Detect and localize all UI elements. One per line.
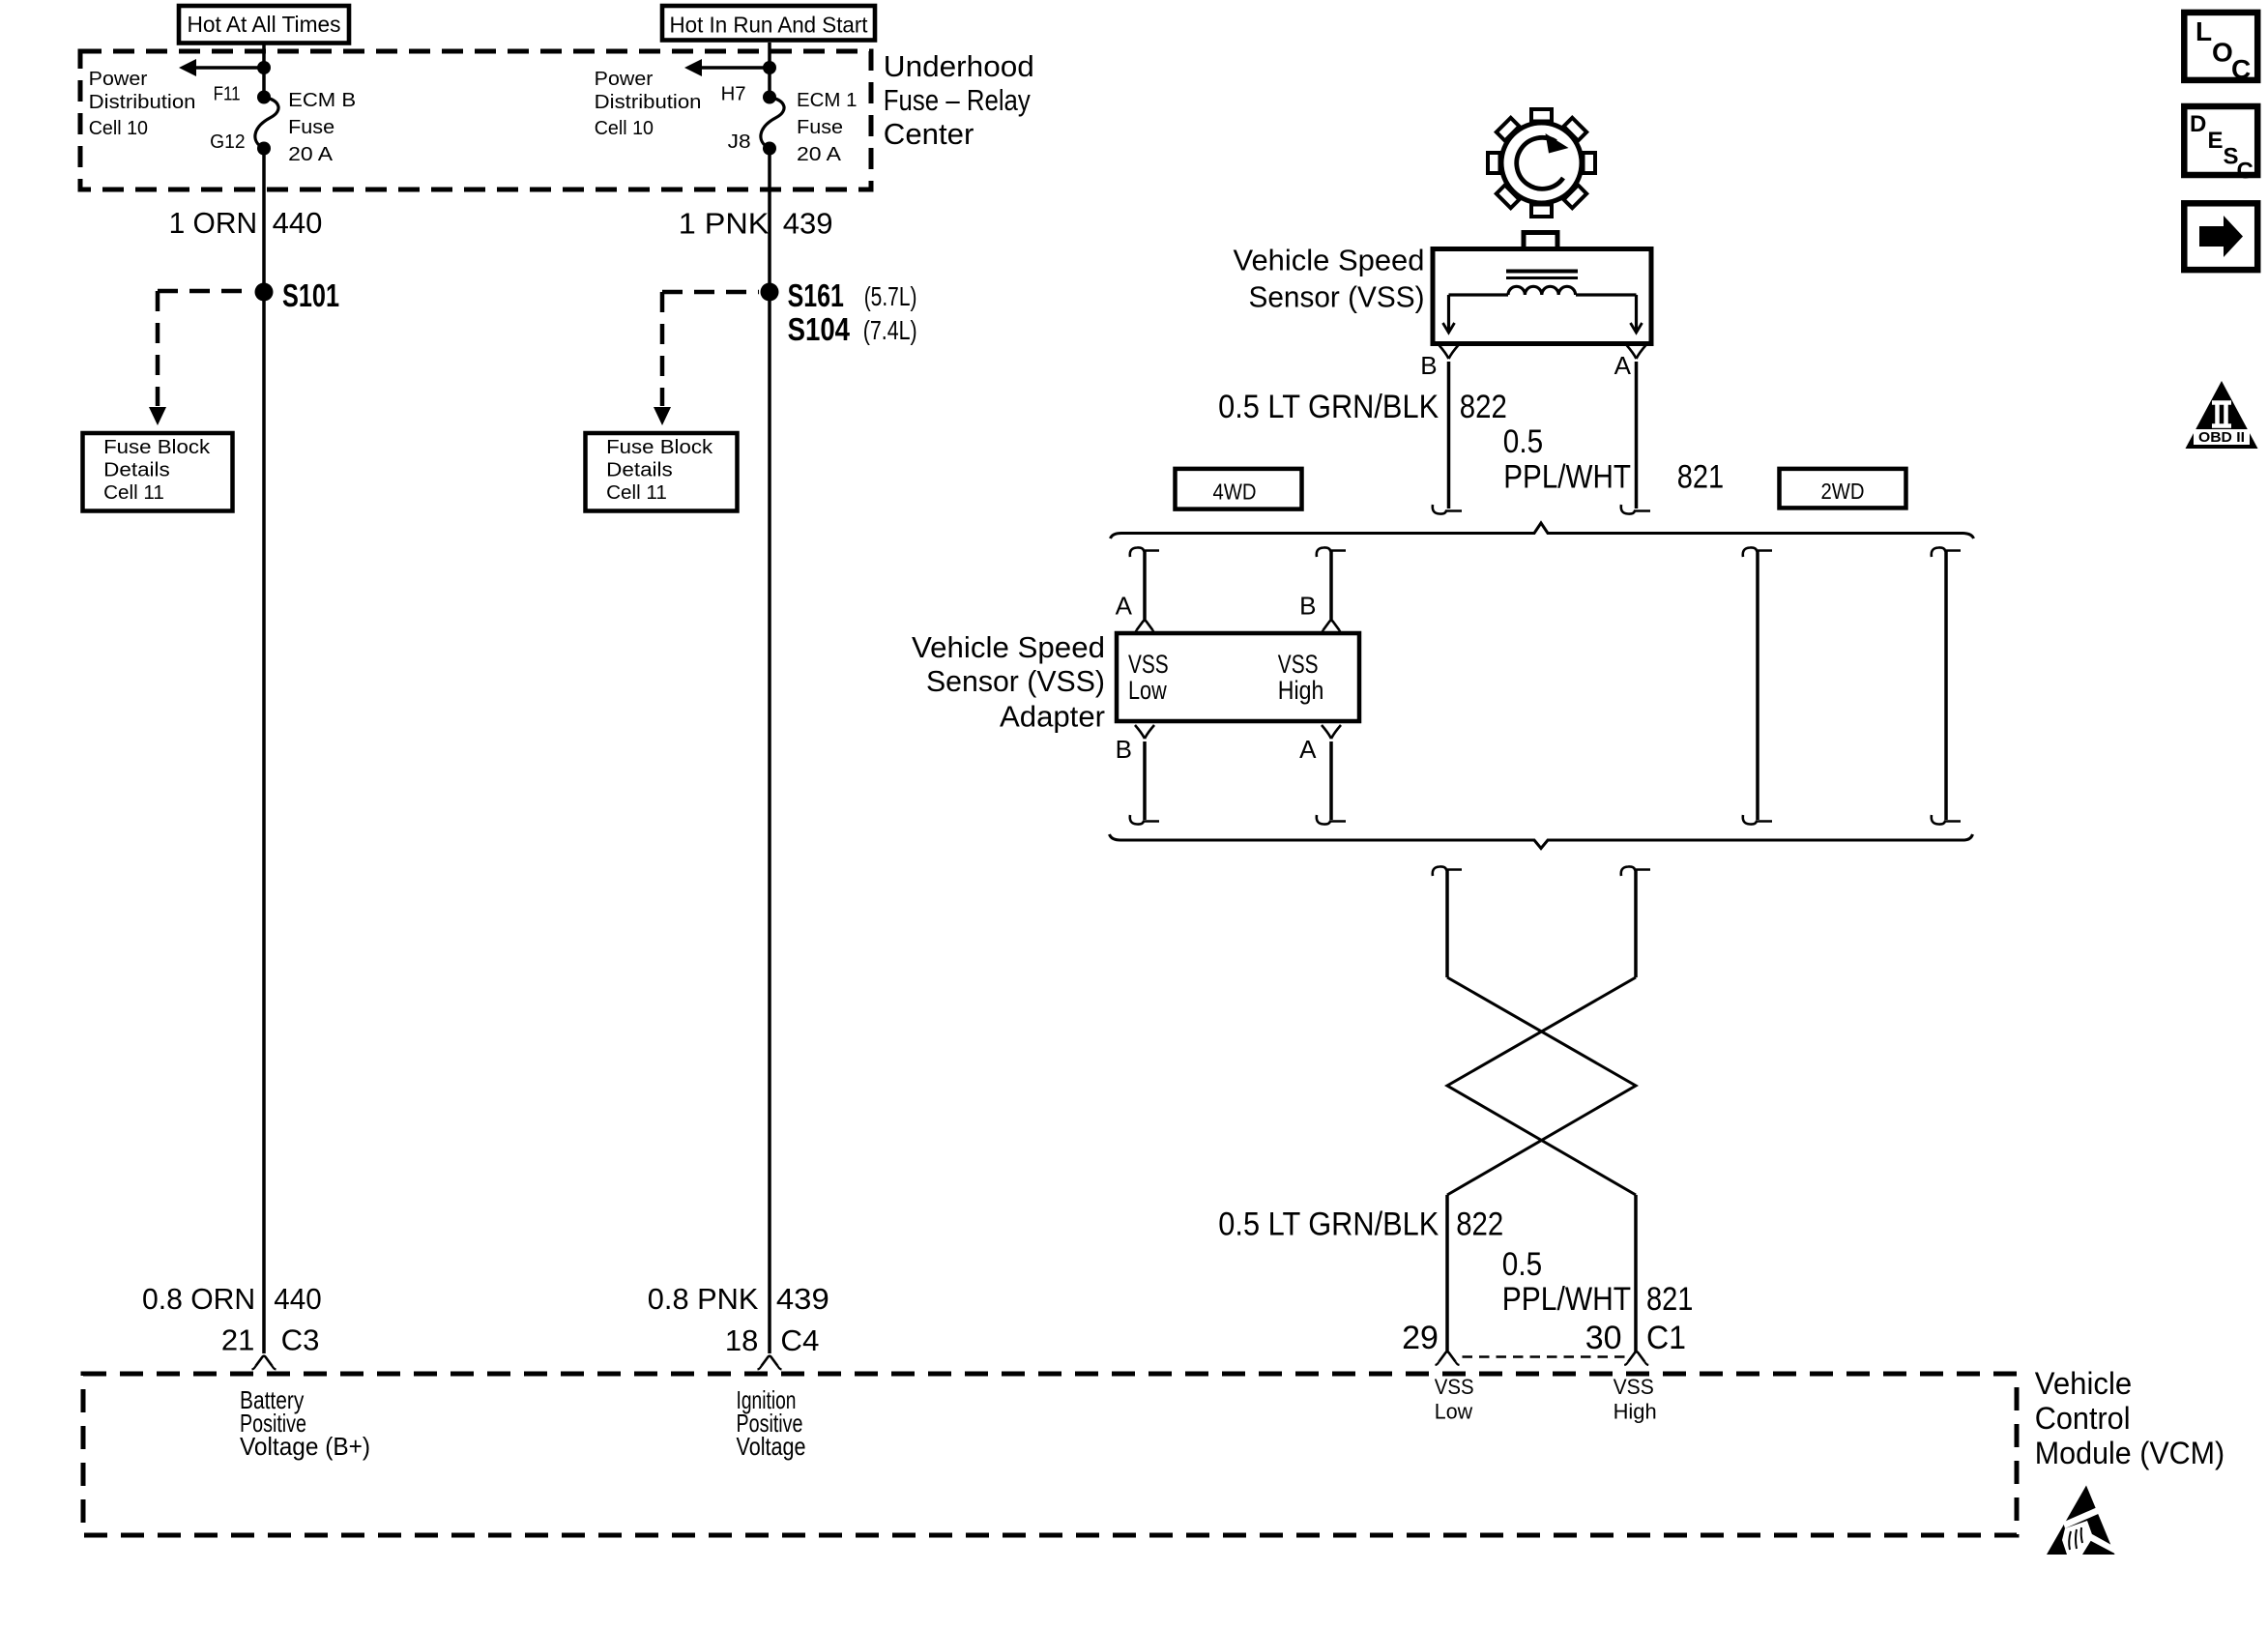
svg-text:Cell 11: Cell 11 xyxy=(103,481,164,504)
svg-text:High: High xyxy=(1614,1400,1657,1424)
pin J8 xyxy=(728,131,751,153)
wire label 1 ORN 440 xyxy=(169,206,323,240)
terminal 21 C3 (VCM) xyxy=(221,1323,320,1370)
wire to adapter pin A xyxy=(1130,547,1159,620)
svg-text:(7.4L): (7.4L) xyxy=(863,315,917,345)
adapter text VSS High xyxy=(1278,650,1324,705)
svg-text:A: A xyxy=(1614,351,1632,380)
svg-text:J8: J8 xyxy=(728,131,751,153)
svg-text:S161: S161 xyxy=(788,277,844,313)
VSS reluctor gear wheel xyxy=(1488,109,1595,217)
svg-text:PPL/WHT: PPL/WHT xyxy=(1502,1281,1631,1318)
splice label S104 (7.4L) xyxy=(788,311,917,347)
svg-text:0.5: 0.5 xyxy=(1503,423,1543,460)
svg-text:18: 18 xyxy=(725,1323,758,1357)
label box 4WD xyxy=(1176,469,1302,509)
fuse block details box (right) xyxy=(586,433,738,511)
svg-text:ECM 1: ECM 1 xyxy=(797,89,858,111)
svg-text:21: 21 xyxy=(221,1323,254,1357)
arrow to power distribution (right) xyxy=(684,59,770,76)
terminal 18 C4 (VCM) xyxy=(725,1323,819,1370)
svg-text:PPL/WHT: PPL/WHT xyxy=(1503,459,1631,496)
label box Hot In Run And Start xyxy=(662,6,875,41)
svg-text:VSS: VSS xyxy=(1435,1375,1474,1399)
svg-text:2WD: 2WD xyxy=(1821,479,1865,504)
wire 822 below harness (twisted pair) xyxy=(1433,866,1636,1352)
svg-text:H7: H7 xyxy=(721,83,746,105)
wire 822 from VSS-B xyxy=(1433,362,1462,514)
svg-text:822: 822 xyxy=(1456,1206,1503,1243)
text Power Distribution Cell 10 (left) xyxy=(89,68,196,139)
terminal 30 (VCM C1) xyxy=(1585,1320,1648,1365)
svg-text:20 A: 20 A xyxy=(797,143,841,165)
svg-text:Distribution: Distribution xyxy=(595,91,702,113)
VCM text VSS Low xyxy=(1435,1375,1474,1424)
icon forward arrow xyxy=(2184,203,2257,270)
svg-text:Distribution: Distribution xyxy=(89,91,196,113)
svg-text:Fuse Block: Fuse Block xyxy=(606,436,713,458)
svg-text:S101: S101 xyxy=(282,277,339,313)
wire label 0.8 PNK 439 xyxy=(648,1282,829,1316)
dashed arrow to fuse block details (left) xyxy=(149,291,253,425)
VSS pickup core lines xyxy=(1506,272,1578,278)
icon OBD II xyxy=(2186,381,2258,449)
svg-text:OBD II: OBD II xyxy=(2198,429,2245,446)
label box 2WD xyxy=(1780,469,1906,509)
svg-text:29: 29 xyxy=(1402,1320,1439,1356)
svg-text:D: D xyxy=(2190,111,2206,137)
svg-text:0.8 ORN: 0.8 ORN xyxy=(142,1282,255,1316)
svg-text:1 PNK: 1 PNK xyxy=(679,207,770,241)
svg-text:ECM B: ECM B xyxy=(288,89,356,111)
splice S101 xyxy=(255,277,340,313)
junction dot (right feed) xyxy=(763,61,776,74)
svg-text:S104: S104 xyxy=(788,311,851,347)
2WD pass-through wire (right) xyxy=(1932,547,1961,824)
pin F11 xyxy=(214,83,241,105)
svg-text:Center: Center xyxy=(884,117,974,151)
svg-text:Hot At All Times: Hot At All Times xyxy=(188,12,341,37)
icon DESC xyxy=(2184,106,2257,185)
VSS mounting tab xyxy=(1524,233,1557,249)
label box Hot At All Times xyxy=(179,6,349,44)
wire to adapter pin B xyxy=(1317,547,1346,620)
svg-text:C4: C4 xyxy=(780,1323,819,1357)
wire label 0.8 ORN 440 xyxy=(142,1282,322,1316)
fuse ECM 1 20A (H7-J8) xyxy=(761,91,784,156)
svg-text:Module (VCM): Module (VCM) xyxy=(2035,1436,2224,1470)
svg-text:O: O xyxy=(2212,38,2233,68)
label Vehicle Control Module (VCM) xyxy=(2035,1366,2224,1470)
pin H7 xyxy=(721,83,746,105)
wire 440 ORN (fuse to VCM) xyxy=(262,149,266,1354)
svg-text:440: 440 xyxy=(273,206,323,240)
fuse ECM B 20A (F11-G12) xyxy=(255,91,278,156)
wire IGN feed from Hot In Run And Start xyxy=(768,43,771,98)
svg-text:C3: C3 xyxy=(281,1323,320,1357)
svg-text:0.5 LT GRN/BLK: 0.5 LT GRN/BLK xyxy=(1218,1206,1439,1243)
svg-text:B: B xyxy=(1299,592,1316,621)
svg-text:A: A xyxy=(1299,735,1317,764)
harness brace (top) xyxy=(1111,523,1974,538)
adapter terminal A (bottom) xyxy=(1299,725,1341,764)
vehicle control module box (dashed) xyxy=(83,1374,2017,1535)
VCM text Ignition Positive Voltage xyxy=(737,1385,806,1461)
terminal 29 (VCM C1) xyxy=(1402,1320,1459,1365)
label Underhood Fuse-Relay Center xyxy=(884,49,1034,151)
svg-text:Power: Power xyxy=(595,68,654,90)
svg-text:B: B xyxy=(1420,351,1437,380)
wire 821 below harness (twisted pair) xyxy=(1447,866,1650,1352)
svg-text:Hot In Run And Start: Hot In Run And Start xyxy=(670,13,868,38)
svg-text:F11: F11 xyxy=(214,83,241,105)
wire label 0.5 LT GRN/BLK 822 (lower) xyxy=(1218,1206,1503,1243)
VSS pickup coil xyxy=(1443,286,1643,333)
svg-text:High: High xyxy=(1278,676,1324,705)
svg-text:Sensor (VSS): Sensor (VSS) xyxy=(926,664,1105,698)
svg-text:Details: Details xyxy=(103,459,170,481)
svg-text:Fuse: Fuse xyxy=(288,116,334,138)
svg-text:Vehicle Speed: Vehicle Speed xyxy=(912,630,1105,664)
label Vehicle Speed Sensor (VSS) Adapter xyxy=(912,630,1105,734)
svg-text:C: C xyxy=(2237,159,2253,185)
harness brace (bottom) xyxy=(1110,834,1973,849)
svg-text:Cell 10: Cell 10 xyxy=(89,117,148,139)
svg-text:VSS: VSS xyxy=(1278,650,1319,679)
svg-text:Low: Low xyxy=(1435,1400,1472,1424)
adapter terminal B (bottom) xyxy=(1116,725,1154,764)
svg-text:G12: G12 xyxy=(210,131,246,153)
svg-text:Underhood: Underhood xyxy=(884,49,1034,83)
wire 439 PNK (fuse to VCM) xyxy=(768,149,771,1354)
svg-text:Fuse: Fuse xyxy=(797,116,843,138)
svg-text:B: B xyxy=(1116,735,1132,764)
wire label 0.5 PPL/WHT 821 (upper) xyxy=(1503,423,1724,496)
connector C1 dashed line xyxy=(1463,1355,1631,1358)
wire label 0.5 LT GRN/BLK 822 (upper) xyxy=(1218,389,1507,425)
svg-text:Cell 11: Cell 11 xyxy=(606,481,667,504)
adapter pin A terminal xyxy=(1116,592,1157,634)
VCM text Battery Positive Voltage xyxy=(240,1385,370,1461)
label ECM B Fuse 20 A xyxy=(288,89,356,165)
svg-text:Sensor (VSS): Sensor (VSS) xyxy=(1249,280,1425,314)
dashed arrow to fuse block details (right) xyxy=(654,292,759,425)
wire label 1 PNK 439 xyxy=(679,207,833,241)
svg-text:Adapter: Adapter xyxy=(1000,700,1105,734)
svg-text:4WD: 4WD xyxy=(1213,480,1257,505)
svg-text:Control: Control xyxy=(2035,1401,2131,1436)
fuse block details box (left) xyxy=(83,433,233,511)
svg-text:20 A: 20 A xyxy=(288,143,333,165)
svg-text:Details: Details xyxy=(606,459,673,481)
wire from adapter A down xyxy=(1317,741,1346,825)
svg-text:0.5: 0.5 xyxy=(1502,1246,1542,1283)
2WD pass-through wire (left) xyxy=(1743,547,1772,824)
wire 821 from VSS-A xyxy=(1621,362,1650,514)
label ECM 1 Fuse 20 A xyxy=(797,89,858,165)
svg-text:Vehicle: Vehicle xyxy=(2035,1366,2132,1401)
svg-text:Low: Low xyxy=(1128,676,1167,705)
pin G12 xyxy=(210,131,246,153)
svg-text:Fuse – Relay: Fuse – Relay xyxy=(884,83,1031,117)
svg-text:439: 439 xyxy=(783,207,833,241)
svg-text:0.8 PNK: 0.8 PNK xyxy=(648,1282,759,1316)
underhood fuse-relay center box (dashed) xyxy=(80,51,871,189)
icon LOC xyxy=(2184,13,2257,84)
arrow to power distribution (left) xyxy=(179,59,264,76)
splice S161 (5.7L) xyxy=(761,277,917,313)
svg-text:439: 439 xyxy=(776,1282,829,1316)
svg-text:Voltage: Voltage xyxy=(737,1432,806,1461)
VSS sensor box xyxy=(1433,249,1651,344)
terminal B (VSS) xyxy=(1420,345,1458,380)
connector C1 label xyxy=(1646,1320,1686,1356)
svg-text:VSS: VSS xyxy=(1128,650,1169,679)
ESD sensitive device symbol xyxy=(2047,1486,2119,1555)
svg-text:821: 821 xyxy=(1677,459,1724,496)
svg-text:Fuse Block: Fuse Block xyxy=(103,436,211,458)
svg-text:30: 30 xyxy=(1585,1320,1622,1356)
adapter text VSS Low xyxy=(1128,650,1169,705)
svg-text:(5.7L): (5.7L) xyxy=(864,281,917,311)
svg-text:821: 821 xyxy=(1646,1281,1693,1318)
adapter pin B terminal xyxy=(1299,592,1343,634)
svg-text:822: 822 xyxy=(1460,389,1507,425)
wire B+ feed from Hot At All Times xyxy=(262,43,266,98)
svg-text:A: A xyxy=(1116,592,1133,621)
svg-text:Cell 10: Cell 10 xyxy=(595,117,654,139)
wire label 0.5 PPL/WHT 821 (lower) xyxy=(1502,1246,1694,1318)
text Power Distribution Cell 10 (right) xyxy=(595,68,702,139)
VCM text VSS High xyxy=(1614,1375,1657,1424)
VSS adapter box xyxy=(1117,633,1359,721)
svg-text:440: 440 xyxy=(274,1282,321,1316)
svg-text:VSS: VSS xyxy=(1614,1375,1654,1399)
svg-text:Power: Power xyxy=(89,68,148,90)
svg-text:1 ORN: 1 ORN xyxy=(169,206,258,240)
svg-text:Voltage (B+): Voltage (B+) xyxy=(240,1432,370,1461)
wire from adapter B down xyxy=(1130,741,1159,825)
svg-text:C: C xyxy=(2231,54,2251,84)
svg-text:0.5 LT GRN/BLK: 0.5 LT GRN/BLK xyxy=(1218,389,1439,425)
svg-text:L: L xyxy=(2195,16,2212,46)
junction dot (left feed) xyxy=(257,61,271,74)
label Vehicle Speed Sensor (VSS) xyxy=(1234,244,1425,314)
svg-text:E: E xyxy=(2208,128,2224,154)
terminal A (VSS) xyxy=(1614,345,1646,380)
svg-text:C1: C1 xyxy=(1646,1320,1686,1356)
svg-text:Vehicle Speed: Vehicle Speed xyxy=(1234,244,1425,277)
